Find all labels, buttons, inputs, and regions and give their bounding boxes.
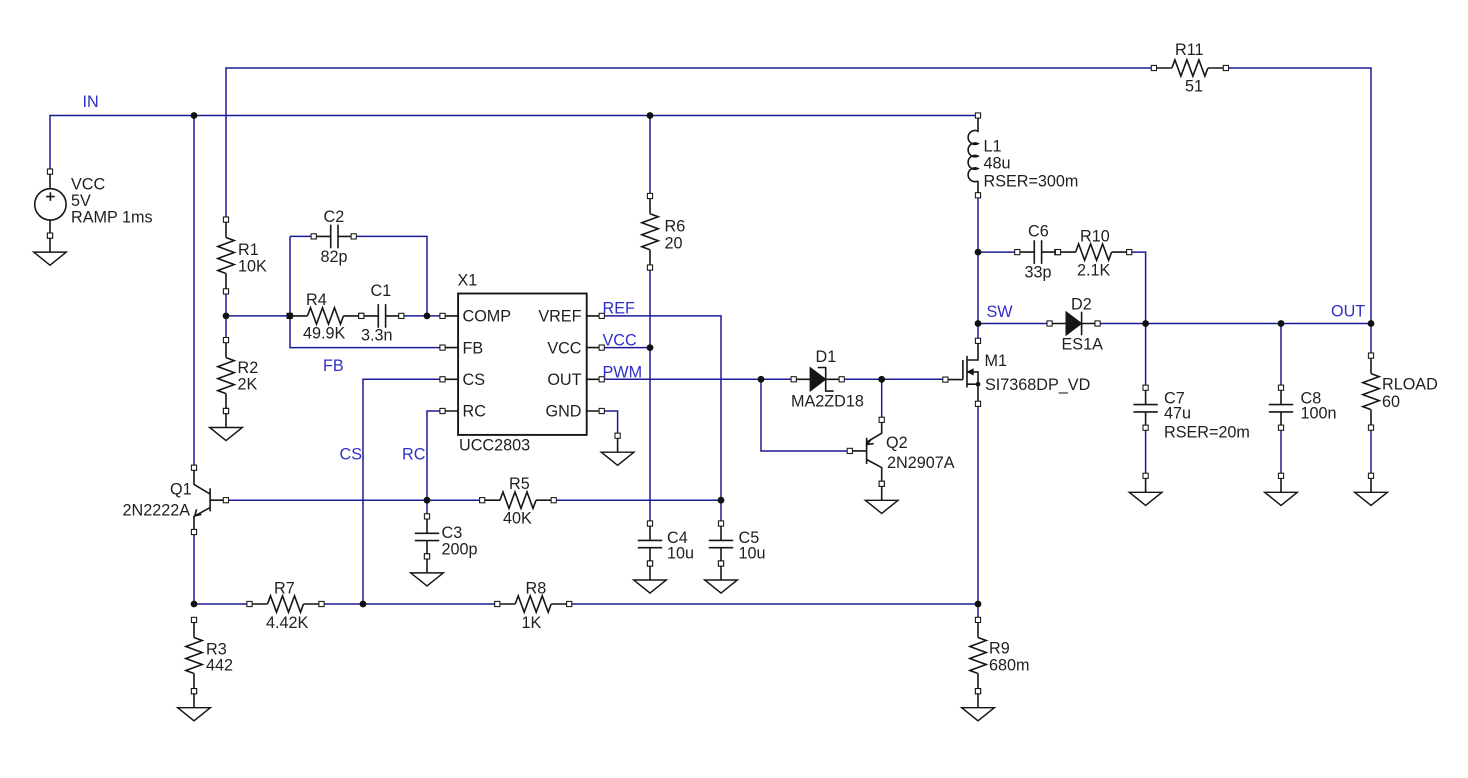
ground below VCC source (34, 233, 67, 265)
label X1 designator (458, 272, 478, 290)
label C3 (442, 524, 478, 559)
pin label CS pin 3 (463, 371, 486, 389)
label M1 (985, 352, 1091, 394)
svg-text:RC: RC (463, 403, 487, 421)
svg-text:RLOAD: RLOAD (1382, 376, 1438, 394)
resistor RLOAD (1363, 353, 1379, 430)
ground below RLOAD (1355, 473, 1388, 505)
node L1 C6 tap (975, 249, 982, 256)
wire Q2 emitter to PWM net (881, 379, 883, 420)
wire top net R11 right to OUT corner (1226, 68, 1371, 324)
wire VCC pin stub to column (602, 347, 650, 349)
svg-text:2.1K: 2.1K (1077, 262, 1111, 280)
svg-text:C2: C2 (324, 208, 345, 226)
ground below R3 (178, 689, 211, 721)
pin label VCC pin 7 (547, 340, 581, 358)
svg-text:CS: CS (340, 446, 363, 464)
pin label GND pin 5 (546, 403, 582, 421)
node SW (975, 320, 982, 327)
svg-text:10K: 10K (238, 257, 267, 275)
wire C2 right segment down to COMP node (354, 236, 427, 316)
pin label VREF pin 8 (538, 308, 581, 326)
wire M1 source down to bottom net (977, 404, 979, 604)
label R11 (1175, 41, 1204, 95)
transistor M1 SI7368DP_VD NMOS (943, 338, 981, 406)
net label OUT (1331, 303, 1365, 321)
svg-text:RSER=20m: RSER=20m (1164, 424, 1250, 442)
node PWM at Q2 emitter (878, 376, 885, 383)
resistor R4 (287, 308, 364, 324)
svg-text:SW: SW (987, 303, 1014, 321)
svg-text:VREF: VREF (538, 308, 581, 326)
wire R5 to REF column (554, 499, 721, 501)
label C4 (667, 529, 694, 563)
svg-text:R1: R1 (238, 241, 259, 259)
wire Q1 emitter drop (193, 532, 195, 604)
svg-text:FB: FB (463, 340, 484, 358)
svg-text:200p: 200p (442, 541, 478, 559)
svg-text:680m: 680m (989, 657, 1030, 675)
svg-text:C3: C3 (442, 524, 463, 542)
diode D2 ES1A (1047, 312, 1100, 336)
resistor R1 (218, 217, 234, 294)
svg-text:OUT: OUT (547, 371, 581, 389)
svg-text:60: 60 (1382, 393, 1400, 411)
node IN at R6 column (647, 112, 654, 119)
svg-text:2N2907A: 2N2907A (887, 454, 955, 472)
svg-text:10u: 10u (739, 545, 766, 563)
node FB divider tap (223, 313, 230, 320)
resistor R6 (642, 193, 658, 270)
net label RC (402, 446, 426, 464)
svg-text:D1: D1 (816, 348, 837, 366)
svg-text:82p: 82p (321, 248, 348, 266)
pin label OUT pin 6 (547, 371, 581, 389)
wire C6 branch from L1 column (978, 251, 1017, 253)
label X1 value UCC2803 (459, 437, 530, 455)
label Q1 (123, 481, 192, 520)
wire RLOAD bottom to ground flag (1370, 428, 1372, 476)
inductor L1 (968, 113, 980, 198)
svg-text:C6: C6 (1028, 223, 1049, 241)
ground below C7 (1129, 473, 1162, 505)
resistor R8 (495, 596, 572, 612)
svg-text:R8: R8 (526, 580, 547, 598)
svg-text:R4: R4 (306, 291, 327, 309)
svg-text:OUT: OUT (1331, 303, 1365, 321)
node OUT at RLOAD (1368, 320, 1375, 327)
resistor R9 (970, 617, 986, 694)
node bottom at R9 (975, 601, 982, 608)
label R8 (522, 580, 547, 633)
resistor R3 (186, 617, 202, 694)
node bottom at Q1 emitter (191, 601, 198, 608)
svg-text:L1: L1 (984, 138, 1002, 156)
label D1 (791, 348, 864, 411)
net label VCC (603, 332, 637, 350)
label Q2 (886, 434, 955, 472)
wire IN to Q1 collector riser (193, 116, 195, 468)
svg-text:R10: R10 (1080, 228, 1110, 246)
svg-text:COMP: COMP (463, 308, 512, 326)
wire C8 drop from OUT line (1280, 324, 1282, 388)
svg-text:40K: 40K (503, 510, 532, 528)
label C7 (1164, 390, 1250, 442)
svg-text:REF: REF (603, 300, 635, 318)
label L1 (984, 138, 1079, 191)
net label IN (83, 93, 99, 111)
svg-text:PWM: PWM (603, 364, 643, 382)
svg-text:Q1: Q1 (170, 481, 192, 499)
capacitor C3 (415, 514, 439, 559)
resistor R2 (218, 338, 234, 414)
wire FB node horizontal (226, 315, 290, 317)
wire RC node row: Q1 base to R5 (226, 499, 482, 501)
svg-text:SI7368DP_VD: SI7368DP_VD (985, 376, 1090, 394)
wire R1 bottom to R2 top (FB divider) (225, 291, 227, 340)
voltage source VCC (35, 169, 66, 238)
svg-text:R11: R11 (1175, 41, 1204, 59)
wire R10 to OUT line corner (1129, 252, 1145, 323)
label D2 (1062, 296, 1104, 354)
svg-text:48u: 48u (984, 155, 1011, 173)
svg-text:1K: 1K (522, 614, 542, 632)
wire C2 loop left vertical and FB pin feed (290, 236, 443, 347)
wire IN net: VCC source up and across to L1 (50, 116, 978, 172)
capacitor C7 (1133, 385, 1157, 430)
svg-text:GND: GND (546, 403, 582, 421)
wire C7 drop from OUT line (1145, 324, 1147, 388)
wire CS pin left and down to bottom net (363, 379, 443, 604)
svg-text:2N2222A: 2N2222A (123, 502, 191, 520)
svg-text:3.3n: 3.3n (361, 327, 393, 345)
transistor Q1 2N2222A NPN (191, 465, 228, 535)
net label PWM (603, 364, 643, 382)
label C1 (361, 282, 393, 345)
ground below R2 (210, 408, 243, 440)
svg-text:51: 51 (1185, 77, 1203, 95)
label C2 (321, 208, 348, 266)
resistor R10 (1055, 244, 1131, 260)
net label CS (340, 446, 363, 464)
node OUT at C8 (1278, 320, 1285, 327)
wire REF net from VREF pin down to C5 (602, 316, 721, 524)
wire column IN to R6 (649, 116, 651, 197)
node RC at C3 (424, 497, 431, 504)
ground below C8 (1265, 473, 1298, 505)
label C8 (1301, 390, 1337, 423)
svg-text:442: 442 (206, 657, 233, 675)
svg-text:CS: CS (463, 371, 486, 389)
wire C2 top left segment (290, 235, 314, 237)
label R9 (989, 640, 1030, 675)
capacitor C5 (709, 521, 733, 566)
label R2 (238, 359, 259, 394)
resistor R5 (480, 492, 557, 508)
svg-text:FB: FB (323, 357, 344, 375)
label C5 (739, 529, 766, 563)
node CS at bottom net (360, 601, 367, 608)
capacitor C8 (1269, 385, 1293, 430)
wire net from R11 node down-left to R1 top (226, 68, 1154, 220)
svg-text:UCC2803: UCC2803 (459, 437, 530, 455)
svg-text:VCC: VCC (71, 176, 105, 194)
svg-text:2K: 2K (238, 376, 258, 394)
node VCC at column (647, 344, 654, 351)
svg-text:R5: R5 (509, 475, 530, 493)
ground below C3 (411, 554, 444, 586)
label RLOAD (1382, 376, 1438, 412)
svg-text:C1: C1 (371, 282, 392, 300)
net label SW (987, 303, 1014, 321)
label R5 (503, 475, 532, 528)
svg-text:Q2: Q2 (886, 434, 908, 452)
node REF R5 C5 (718, 497, 725, 504)
wire RC pin left and down to C3 (427, 411, 443, 516)
svg-text:10u: 10u (667, 545, 694, 563)
svg-text:100n: 100n (1301, 405, 1337, 423)
capacitor C1 (359, 304, 404, 328)
node IN at Q1 riser (191, 112, 198, 119)
wire OUT line D2 to R11 corner (1097, 323, 1371, 325)
transistor Q2 2N2907A PNP (847, 417, 884, 486)
svg-text:49.9K: 49.9K (303, 325, 346, 343)
wire X1 GND pin to ground flag (602, 411, 618, 436)
capacitor C6 (1015, 240, 1060, 264)
capacitor C4 (638, 521, 662, 566)
wire column R6 to C4 via VCC node (649, 268, 651, 524)
svg-text:D2: D2 (1071, 296, 1092, 314)
wire PWM net D1 to M1 gate (842, 378, 946, 380)
svg-text:47u: 47u (1164, 405, 1191, 423)
node PWM at Q2 base loop (758, 376, 765, 383)
svg-text:X1: X1 (458, 272, 478, 290)
svg-text:R2: R2 (238, 359, 259, 377)
op-amp U1 PWM controller X1 UCC2803 box (440, 294, 604, 435)
node COMP (424, 313, 431, 320)
label R4 (303, 291, 346, 343)
net label REF (603, 300, 635, 318)
ground below C5 (705, 561, 738, 593)
wire RLOAD drop from OUT node (1370, 324, 1372, 356)
pin label FB pin 2 (463, 340, 484, 358)
svg-text:MA2ZD18: MA2ZD18 (791, 393, 864, 411)
svg-text:4.42K: 4.42K (266, 614, 309, 632)
label R7 (266, 580, 309, 633)
svg-text:20: 20 (665, 235, 683, 253)
ground below R9 (962, 689, 995, 721)
pin label RC pin 4 (463, 403, 487, 421)
svg-text:R7: R7 (274, 580, 295, 598)
ground below C4 (634, 561, 667, 593)
svg-text:ES1A: ES1A (1062, 336, 1104, 354)
label VCC source name/value (71, 176, 153, 227)
svg-text:RSER=300m: RSER=300m (984, 173, 1079, 191)
wire bottom net R8 to M1 source column (569, 603, 978, 605)
pin label COMP pin 1 (463, 308, 512, 326)
label C6 (1025, 223, 1052, 282)
label R10 (1077, 228, 1111, 280)
diode D1 MA2ZD18 zener (791, 368, 844, 392)
svg-text:VCC: VCC (603, 332, 637, 350)
svg-text:RAMP 1ms: RAMP 1ms (71, 209, 153, 227)
svg-text:33p: 33p (1025, 264, 1052, 282)
wire bottom net R7 to R8 via CS junction (322, 603, 498, 605)
wire L1 bottom through SW to M1 drain (977, 195, 979, 340)
svg-text:M1: M1 (985, 352, 1008, 370)
wire PWM net OUT pin to D1 (602, 378, 794, 380)
wire bottom net to R9 (977, 604, 979, 620)
node OUT at C7 (1142, 320, 1149, 327)
capacitor C2 (311, 225, 356, 249)
wire SW node to D2 (978, 323, 1050, 325)
label R3 (206, 641, 233, 675)
svg-text:VCC: VCC (547, 340, 581, 358)
label R1 (238, 241, 267, 275)
wire bottom net Q1 emitter to R7 (194, 603, 250, 605)
ground below Q2 collector (865, 481, 898, 513)
svg-text:RC: RC (402, 446, 426, 464)
svg-text:R6: R6 (665, 218, 686, 236)
svg-text:IN: IN (83, 93, 99, 111)
svg-text:R9: R9 (989, 640, 1010, 658)
wire C8 bottom to ground flag (1280, 428, 1282, 476)
wire Q2 base loop (761, 379, 850, 451)
resistor R7 (247, 596, 324, 612)
node FB left of R4 (287, 313, 294, 320)
resistor R11 (1151, 60, 1228, 76)
net label FB (323, 357, 344, 375)
label R6 (665, 218, 686, 253)
wire C1 to COMP pin (402, 315, 443, 317)
wire C7 bottom to ground flag (1145, 428, 1147, 476)
ground below X1 GND pin (601, 433, 634, 465)
svg-text:5V: 5V (71, 192, 91, 210)
